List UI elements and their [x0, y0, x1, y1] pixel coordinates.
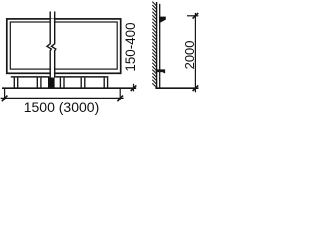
- dim 1500(3000) dimension line: [1, 97, 124, 99]
- wall hatching: [152, 2, 156, 88]
- dim tick right: [117, 96, 123, 102]
- bottom rail: [11, 76, 109, 78]
- ground line right: [155, 87, 198, 89]
- dim 2000 top extension: [187, 15, 198, 17]
- post gap mask: [51, 19, 54, 76]
- leg pair 5: [104, 78, 107, 88]
- fence panel outer frame: [7, 19, 121, 73]
- upper bracket: [159, 17, 165, 23]
- lower bracket: [156, 70, 165, 74]
- svg-text:1500 (3000): 1500 (3000): [24, 99, 100, 115]
- wall line (hatched): [156, 2, 158, 88]
- dim 150-400 tick: [131, 85, 137, 91]
- post side view line: [159, 4, 161, 88]
- fence panel inner frame: [10, 22, 117, 69]
- dim 1500(3000) extension line left: [4, 89, 6, 100]
- middle post left line with break: [47, 12, 51, 78]
- dim tick left: [2, 96, 8, 102]
- leg pair 2: [37, 78, 41, 88]
- leg pair 4: [81, 78, 85, 88]
- middle post right line with break: [52, 12, 56, 78]
- middle post foot: [48, 78, 55, 89]
- dim 2000 line: [194, 13, 196, 92]
- leg pair 3: [60, 78, 64, 88]
- dim 1500(3000) extension line right: [119, 89, 121, 100]
- dim 2000 tick bottom: [193, 85, 199, 91]
- dim 150-400 stub line: [133, 84, 135, 92]
- ground line left: [2, 87, 136, 89]
- svg-text:2000: 2000: [182, 40, 197, 69]
- dim 2000 tick top: [193, 13, 199, 19]
- leg pair 1: [14, 78, 17, 88]
- svg-text:150-400: 150-400: [123, 22, 138, 71]
